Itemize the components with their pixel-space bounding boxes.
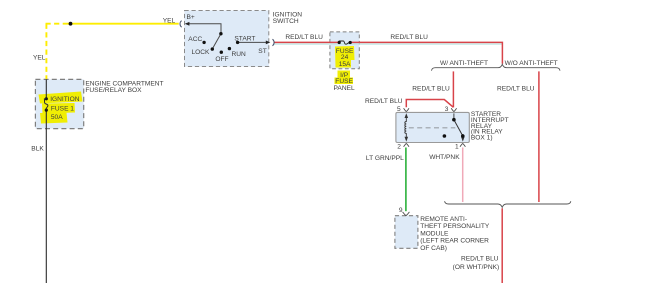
svg-text:MODULE: MODULE — [420, 230, 449, 237]
svg-text:IGNITION: IGNITION — [50, 96, 80, 103]
svg-text:W/ ANTI-THEFT: W/ ANTI-THEFT — [440, 60, 488, 67]
svg-text:ACC: ACC — [188, 36, 202, 43]
svg-text:LOCK: LOCK — [192, 49, 211, 56]
svg-text:RUN: RUN — [232, 51, 247, 58]
svg-text:REMOTE ANTI-: REMOTE ANTI- — [420, 216, 467, 223]
svg-text:FUSE 1: FUSE 1 — [51, 105, 74, 112]
svg-text:(OR WHT/PNK): (OR WHT/PNK) — [453, 264, 500, 271]
svg-text:(LEFT REAR CORNER: (LEFT REAR CORNER — [420, 238, 489, 245]
svg-text:B+: B+ — [187, 14, 195, 21]
svg-text:W/O ANTI-THEFT: W/O ANTI-THEFT — [505, 60, 558, 67]
svg-text:YEL: YEL — [163, 18, 176, 25]
svg-text:OFF: OFF — [215, 56, 228, 63]
svg-text:THEFT PERSONALITY: THEFT PERSONALITY — [420, 223, 490, 230]
svg-text:50A: 50A — [51, 114, 63, 121]
svg-text:PANEL: PANEL — [334, 85, 355, 92]
svg-text:5: 5 — [397, 106, 401, 113]
svg-text:3: 3 — [445, 106, 449, 113]
svg-text:ST: ST — [258, 48, 266, 55]
svg-text:BLK: BLK — [31, 146, 44, 153]
svg-text:RED/LT BLU: RED/LT BLU — [497, 86, 535, 93]
svg-text:15A: 15A — [339, 61, 351, 68]
svg-text:RED/LT BLU: RED/LT BLU — [461, 255, 499, 262]
svg-text:WHT/PNK: WHT/PNK — [429, 154, 460, 161]
svg-text:YEL: YEL — [33, 54, 46, 61]
svg-text:RED/LT BLU: RED/LT BLU — [285, 34, 323, 41]
svg-text:FUSE/RELAY BOX: FUSE/RELAY BOX — [85, 87, 142, 94]
svg-text:BOX 1): BOX 1) — [471, 135, 493, 142]
svg-text:1: 1 — [455, 144, 459, 151]
svg-text:LT GRN/PPL: LT GRN/PPL — [366, 155, 404, 162]
svg-text:2: 2 — [397, 144, 401, 151]
svg-text:9: 9 — [399, 207, 403, 214]
svg-text:RED/LT BLU: RED/LT BLU — [412, 86, 450, 93]
svg-text:RED/LT BLU: RED/LT BLU — [365, 98, 403, 105]
svg-text:RED/LT BLU: RED/LT BLU — [390, 34, 428, 41]
svg-text:SWITCH: SWITCH — [273, 18, 299, 25]
svg-text:START: START — [234, 35, 255, 42]
svg-text:OF CAB): OF CAB) — [420, 245, 447, 252]
